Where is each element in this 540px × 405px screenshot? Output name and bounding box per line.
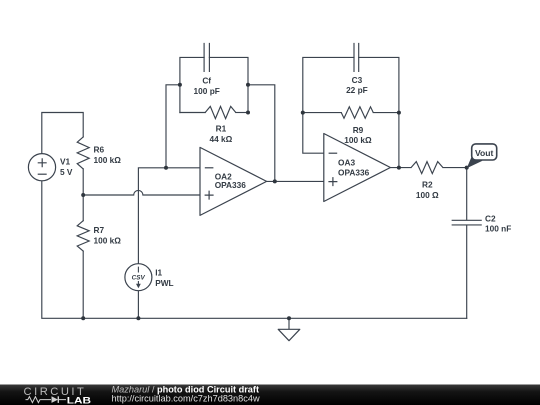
svg-text:R1: R1: [216, 124, 227, 134]
svg-text:100 pF: 100 pF: [194, 86, 220, 96]
svg-text:V1: V1: [60, 157, 71, 167]
svg-text:C2: C2: [485, 213, 496, 223]
svg-text:100 kΩ: 100 kΩ: [94, 155, 122, 165]
svg-text:100 kΩ: 100 kΩ: [344, 135, 372, 145]
svg-text:44 kΩ: 44 kΩ: [209, 134, 232, 144]
svg-text:100 kΩ: 100 kΩ: [94, 236, 122, 246]
svg-text:OPA336: OPA336: [338, 167, 370, 177]
svg-text:5 V: 5 V: [60, 167, 73, 177]
svg-text:I1: I1: [155, 268, 162, 278]
svg-text:OPA336: OPA336: [215, 180, 247, 190]
svg-text:22 pF: 22 pF: [346, 85, 368, 95]
svg-text:R7: R7: [94, 225, 105, 235]
svg-text:OA3: OA3: [338, 158, 355, 168]
svg-text:LAB: LAB: [67, 395, 92, 405]
svg-text:100 Ω: 100 Ω: [416, 190, 439, 200]
svg-text:http://circuitlab.com/c7zh7d83: http://circuitlab.com/c7zh7d83n8c4w: [112, 393, 260, 403]
svg-text:100 nF: 100 nF: [485, 224, 511, 234]
svg-text:Vout: Vout: [475, 148, 494, 158]
svg-text:CSV: CSV: [132, 275, 146, 282]
svg-text:Cf: Cf: [202, 76, 211, 86]
svg-text:R6: R6: [94, 145, 105, 155]
svg-text:C3: C3: [352, 75, 363, 85]
svg-text:PWL: PWL: [155, 278, 173, 288]
svg-text:R9: R9: [353, 125, 364, 135]
svg-text:R2: R2: [422, 180, 433, 190]
